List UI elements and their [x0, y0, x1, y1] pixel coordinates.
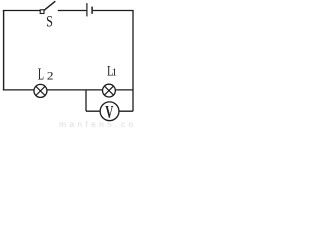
svg-text:V: V: [105, 103, 113, 122]
wire right vertical: [132, 10, 134, 111]
lamp L1 cross: [104, 86, 113, 95]
battery cell long plate (+): [86, 3, 88, 16]
wire battery to top-right corner: [93, 10, 134, 12]
svg-text:S: S: [46, 13, 53, 31]
label L1: [107, 63, 117, 79]
lamp L2 cross: [36, 86, 45, 95]
wire voltmeter row horizontal: [86, 110, 133, 112]
voltmeter V circle: [100, 102, 119, 121]
wire top-left to switch: [3, 10, 41, 12]
svg-text:1: 1: [112, 66, 118, 78]
wire switch to battery: [58, 10, 87, 12]
lamp L1 circle: [103, 84, 116, 97]
switch S pivot terminal: [40, 10, 44, 14]
battery cell short plate (-): [91, 7, 93, 14]
svg-text:manfen5.com: manfen5.com: [59, 119, 136, 128]
wire voltmeter branch left vertical: [85, 90, 87, 111]
wire bottom row (lamp row): [3, 89, 133, 91]
svg-text:2: 2: [47, 69, 54, 82]
wire left vertical: [3, 10, 5, 90]
switch S arm (open): [44, 1, 55, 10]
lamp L2 circle: [34, 84, 47, 97]
label L2: [38, 65, 54, 83]
svg-text:L: L: [38, 65, 44, 83]
